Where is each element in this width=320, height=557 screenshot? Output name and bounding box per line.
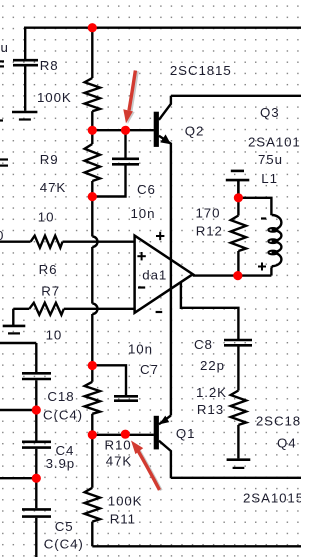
svg-text:u: u (1, 40, 9, 55)
svg-text:2SA1015: 2SA1015 (243, 491, 301, 506)
svg-text:10: 10 (38, 210, 55, 225)
svg-text:100K: 100K (108, 494, 143, 509)
svg-text:C5: C5 (55, 519, 74, 534)
svg-text:R9: R9 (40, 152, 59, 167)
svg-text:22p: 22p (200, 358, 225, 373)
svg-text:R10: R10 (105, 438, 132, 453)
svg-text:C6: C6 (137, 182, 156, 197)
svg-text:R8: R8 (40, 58, 59, 73)
svg-text:2SC1815: 2SC1815 (170, 63, 232, 78)
svg-text:R7: R7 (41, 284, 60, 299)
svg-text:C(C4): C(C4) (43, 408, 83, 423)
svg-text:3.9p: 3.9p (46, 456, 75, 471)
svg-text:1.2K: 1.2K (196, 385, 227, 400)
svg-text:2SC1815: 2SC1815 (256, 414, 301, 429)
svg-text:75u: 75u (258, 152, 283, 167)
svg-text:100K: 100K (37, 90, 72, 105)
svg-text:C(C4): C(C4) (44, 537, 84, 552)
svg-text:R13: R13 (197, 402, 224, 417)
svg-text:10n: 10n (128, 342, 153, 357)
svg-text:L1: L1 (261, 171, 278, 186)
svg-text:R11: R11 (110, 512, 136, 527)
svg-text:0: 0 (0, 228, 4, 243)
svg-text:C8: C8 (194, 337, 213, 352)
svg-text:Q4: Q4 (277, 436, 297, 451)
svg-text:Q1: Q1 (176, 426, 196, 441)
svg-text:Q3: Q3 (260, 105, 280, 120)
svg-text:47K: 47K (106, 454, 132, 469)
svg-text:2SA1015: 2SA1015 (248, 135, 301, 150)
svg-text:10: 10 (46, 328, 63, 343)
svg-text:170: 170 (196, 206, 221, 221)
svg-text:10n: 10n (131, 206, 156, 221)
svg-text:47K: 47K (40, 180, 66, 195)
svg-text:C7: C7 (140, 362, 159, 377)
svg-text:da1: da1 (142, 268, 167, 283)
svg-text:Q2: Q2 (185, 124, 205, 139)
svg-text:R6: R6 (39, 262, 58, 277)
svg-text:R12: R12 (196, 224, 223, 239)
svg-text:C18: C18 (47, 389, 74, 404)
